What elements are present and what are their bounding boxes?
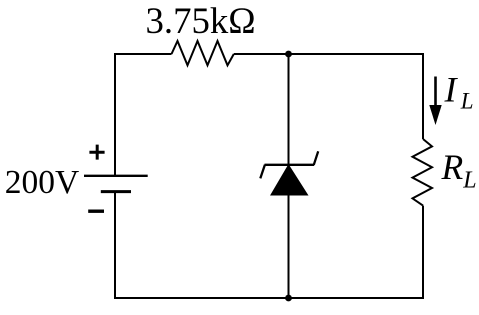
label IL [444,70,474,114]
resistor 3.75k zigzag [172,41,234,65]
wire left lower [114,192,116,299]
wire bottom [114,297,424,299]
wire top-right segment [234,53,424,55]
battery minus sign [88,209,104,212]
wire top-left segment [114,53,172,55]
label RL [441,147,477,193]
svg-text:200V: 200V [5,164,79,201]
battery plus sign [89,145,104,160]
current arrow IL [429,77,441,126]
wire middle branch upper [288,54,290,166]
zener diode D1 anode triangle [271,165,308,195]
resistor RL zigzag [413,139,433,206]
wire right upper [422,53,424,139]
node junction top [285,51,292,58]
wire right lower [422,206,424,299]
zener diode D1 cathode bar [260,151,318,178]
battery positive plate [84,175,148,177]
svg-text:L: L [460,89,474,114]
svg-text:I: I [444,70,459,110]
wire middle branch lower [288,195,290,298]
node junction bottom [285,295,292,302]
battery negative plate [101,190,131,193]
wire left upper [114,53,116,176]
svg-text:R: R [441,147,464,187]
svg-text:3.75kΩ: 3.75kΩ [146,0,256,41]
svg-text:L: L [462,167,476,193]
